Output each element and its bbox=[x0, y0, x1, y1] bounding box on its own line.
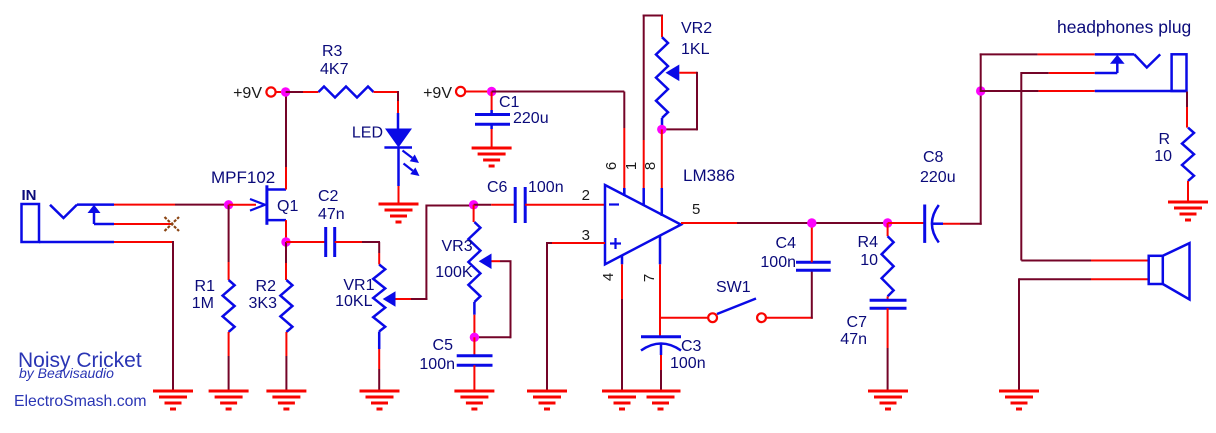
wire pin 3 to ground bbox=[547, 242, 605, 391]
svg-text:220u: 220u bbox=[920, 169, 956, 186]
wire C7 to ground bbox=[887, 308, 889, 391]
svg-text:10KL: 10KL bbox=[335, 293, 372, 310]
headphones jack symbol bbox=[1095, 54, 1187, 91]
wire C5 to ground bbox=[473, 365, 475, 391]
svg-text:+9V: +9V bbox=[233, 85, 262, 102]
svg-text:C4: C4 bbox=[776, 235, 797, 252]
wire junction to R2 bbox=[285, 242, 287, 280]
potentiometer VR2 bbox=[656, 37, 679, 118]
svg-text:C3: C3 bbox=[681, 338, 702, 355]
ground input sleeve bbox=[153, 391, 193, 409]
node output/C4 bbox=[807, 218, 816, 227]
capacitor C7 bbox=[870, 300, 907, 308]
capacitor C3 bbox=[641, 337, 681, 355]
input jack J-IN bbox=[22, 204, 115, 242]
svg-text:1M: 1M bbox=[192, 295, 214, 312]
svg-text:4K7: 4K7 bbox=[320, 61, 349, 78]
svg-text:100n: 100n bbox=[670, 355, 706, 372]
wire node to C8 bbox=[888, 222, 925, 224]
potentiometer VR3 bbox=[468, 222, 491, 302]
wire C3 to ground bbox=[660, 355, 662, 391]
svg-text:R2: R2 bbox=[256, 278, 277, 295]
wire VR3 to C5 node bbox=[473, 302, 476, 334]
pin 6 stub bbox=[623, 188, 626, 196]
svg-text:10: 10 bbox=[1154, 148, 1172, 165]
ground C5 bbox=[454, 391, 494, 409]
wire node to C5 bbox=[473, 337, 475, 356]
resistor R3 bbox=[319, 87, 374, 98]
no-connect X mark bbox=[165, 217, 180, 231]
wire headphone ring row bbox=[1021, 72, 1095, 261]
wire VR1 wiper loop bbox=[396, 205, 471, 301]
wire +9V rail to pin6 bbox=[492, 92, 625, 196]
svg-text:100K: 100K bbox=[435, 264, 473, 281]
wire input tip bbox=[114, 204, 227, 206]
ground VR1 bbox=[360, 391, 400, 409]
svg-text:R3: R3 bbox=[322, 43, 343, 60]
resistor R1 bbox=[223, 280, 235, 332]
svg-text:Q1: Q1 bbox=[277, 198, 298, 215]
wire node to C1 bbox=[491, 92, 493, 115]
wire R4 to C7 bbox=[887, 296, 889, 300]
svg-text:C2: C2 bbox=[318, 188, 339, 205]
wire C2 to VR1 bbox=[335, 242, 380, 265]
pin 1 wire to VR2 top bbox=[643, 15, 663, 207]
wire sleeve to R bbox=[1186, 92, 1188, 128]
wire pin7 to SW1 bbox=[660, 317, 708, 319]
svg-text:220u: 220u bbox=[513, 110, 549, 127]
wire headphone tip row bbox=[980, 53, 1095, 92]
svg-text:C8: C8 bbox=[923, 149, 944, 166]
ground R bbox=[1168, 202, 1208, 220]
wire VR1 to ground bbox=[378, 332, 381, 392]
svg-text:1: 1 bbox=[623, 162, 640, 170]
+9V terminal 1 bbox=[266, 87, 275, 96]
ground C7 bbox=[868, 391, 908, 409]
svg-text:C7: C7 bbox=[847, 314, 868, 331]
wire gate bbox=[229, 204, 256, 206]
svg-text:100n: 100n bbox=[760, 254, 796, 271]
transistor Q1 MPF102 bbox=[250, 185, 286, 225]
wire C4 to output rail bbox=[811, 223, 813, 262]
svg-text:4: 4 bbox=[600, 273, 617, 281]
capacitor C6 bbox=[515, 187, 525, 223]
svg-text:SW1: SW1 bbox=[716, 279, 751, 296]
ground C1 bbox=[472, 148, 512, 166]
svg-text:10: 10 bbox=[860, 252, 878, 269]
wire node to R3 bbox=[286, 91, 319, 93]
svg-text:1KL: 1KL bbox=[681, 41, 710, 58]
svg-text:100n: 100n bbox=[419, 356, 455, 373]
capacitor C5 bbox=[457, 356, 493, 366]
switch SW1 bbox=[708, 299, 766, 323]
svg-text:headphones plug: headphones plug bbox=[1057, 17, 1191, 37]
wire VR2 bottom bbox=[661, 118, 664, 129]
wire node to VR3 bbox=[473, 205, 475, 222]
ground LED bbox=[379, 204, 419, 222]
svg-text:47n: 47n bbox=[318, 206, 345, 223]
svg-text:6: 6 bbox=[603, 162, 620, 170]
wire R3 to LED bbox=[374, 91, 400, 129]
ground R1 bbox=[209, 391, 249, 409]
svg-text:LM386: LM386 bbox=[683, 166, 735, 185]
ground C3 bbox=[641, 391, 681, 409]
node +9V/R3/Q1 bbox=[281, 87, 290, 96]
node output/R4/C8 bbox=[883, 218, 892, 227]
LED D1 bbox=[384, 129, 412, 187]
wire headphone sleeve row bbox=[981, 90, 1095, 92]
+9V terminal 2 bbox=[456, 87, 465, 96]
wire SW1 to C4 bbox=[766, 270, 813, 318]
svg-text:LED: LED bbox=[352, 125, 383, 142]
svg-text:VR3: VR3 bbox=[441, 238, 472, 255]
node headphone sleeve bbox=[976, 86, 985, 95]
wire drain to +9V rail bbox=[285, 92, 287, 190]
ground pin3 bbox=[527, 391, 567, 409]
wire pin 7 down bbox=[659, 236, 662, 337]
svg-text:R1: R1 bbox=[195, 278, 216, 295]
node VR2/pin8 bbox=[657, 125, 666, 134]
wire R to ground bbox=[1187, 181, 1189, 202]
resistor R4 bbox=[882, 236, 894, 296]
pin 8 wire bbox=[661, 129, 663, 216]
op-amp U1 LM386 bbox=[605, 185, 681, 264]
wire terminal to node bbox=[276, 91, 281, 93]
node gate junction bbox=[224, 200, 233, 209]
node VR3/C5 bbox=[470, 333, 479, 342]
wire node to C6 bbox=[474, 204, 516, 206]
node source/C2/R2 bbox=[281, 237, 290, 246]
capacitor C2 bbox=[326, 227, 335, 257]
wire C8 to riser bbox=[943, 91, 982, 225]
svg-text:ElectroSmash.com: ElectroSmash.com bbox=[14, 393, 147, 410]
wire source to junction bbox=[285, 220, 287, 242]
resistor R bbox=[1182, 128, 1194, 181]
capacitor C4 bbox=[796, 262, 831, 270]
svg-text:5: 5 bbox=[692, 201, 700, 218]
svg-text:7: 7 bbox=[641, 274, 658, 282]
svg-text:100n: 100n bbox=[528, 179, 564, 196]
speaker LS1 bbox=[1149, 243, 1190, 299]
svg-text:R: R bbox=[1158, 131, 1170, 148]
capacitor C8 bbox=[925, 205, 943, 243]
wire R1 to ground bbox=[228, 332, 230, 391]
wire C1 to ground bbox=[491, 129, 493, 148]
wire VR3 wiper loop bbox=[478, 261, 512, 338]
resistor R2 bbox=[280, 280, 292, 332]
ground pin4 bbox=[602, 391, 642, 409]
svg-text:47n: 47n bbox=[840, 331, 867, 348]
wire junction to C2 bbox=[286, 241, 326, 243]
wire input sleeve to ground bbox=[114, 241, 173, 391]
svg-text:IN: IN bbox=[22, 187, 37, 204]
wire junction to R1 bbox=[228, 205, 230, 280]
potentiometer VR1 bbox=[373, 265, 395, 332]
svg-text:+9V: +9V bbox=[423, 85, 452, 102]
svg-text:VR2: VR2 bbox=[681, 20, 712, 37]
svg-text:MPF102: MPF102 bbox=[211, 168, 275, 187]
wire LED to ground bbox=[398, 186, 400, 204]
svg-text:by Beavisaudio: by Beavisaudio bbox=[19, 365, 114, 381]
wire pin 4 to ground bbox=[621, 256, 624, 391]
svg-text:3: 3 bbox=[582, 227, 590, 244]
ground speaker bbox=[999, 391, 1039, 409]
wire output pin5 bbox=[681, 222, 888, 224]
wire to speaker top bbox=[1021, 260, 1148, 262]
svg-text:3K3: 3K3 bbox=[249, 295, 278, 312]
svg-text:2: 2 bbox=[582, 187, 590, 204]
node +9V/C1 rail bbox=[487, 87, 496, 96]
wire C6 to pin2 bbox=[525, 204, 605, 206]
wire speaker return to ground bbox=[1019, 278, 1149, 391]
wire terminal2 to node bbox=[465, 91, 487, 93]
svg-text:R4: R4 bbox=[858, 234, 879, 251]
svg-text:VR1: VR1 bbox=[343, 277, 374, 294]
svg-text:C1: C1 bbox=[499, 94, 520, 111]
LED emission arrows bbox=[403, 151, 420, 177]
ground R2 bbox=[266, 391, 306, 409]
wire node to R4 bbox=[887, 223, 889, 236]
wire input ring bbox=[114, 223, 171, 225]
wire R2 to ground bbox=[285, 332, 287, 391]
svg-text:C6: C6 bbox=[487, 179, 508, 196]
node C6/VR3 bbox=[469, 200, 478, 209]
capacitor C1 bbox=[475, 110, 510, 129]
wire VR2 wiper loop bbox=[666, 72, 697, 131]
svg-text:C5: C5 bbox=[433, 337, 454, 354]
